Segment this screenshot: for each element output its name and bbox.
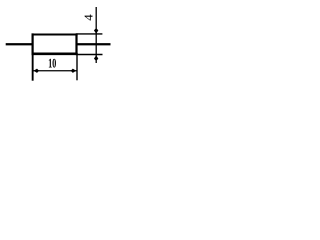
wire left lead xyxy=(6,43,34,45)
extension line bottom left (for dim 10) xyxy=(32,53,34,81)
resistor body right edge xyxy=(75,33,77,55)
extension line bottom right (for dim 4) xyxy=(76,54,102,56)
extension line bottom right vertical (for dim 10) xyxy=(76,53,78,80)
extension line top right (for dim 4) xyxy=(76,33,102,35)
label 4 (rotated 90 CCW) xyxy=(85,15,93,21)
label 10 digit 0 xyxy=(53,59,56,68)
arrowhead down (dim 4 top) xyxy=(94,29,98,34)
dimension line horizontal (dim 10) xyxy=(33,70,76,72)
arrowhead right (dim 10) xyxy=(71,69,76,73)
resistor body R1 top edge xyxy=(32,33,78,35)
label 10 digit 1 xyxy=(49,59,52,68)
arrowhead left (dim 10) xyxy=(34,69,39,73)
dimension line vertical (dim 4) xyxy=(95,7,97,63)
wire right lead xyxy=(76,43,111,45)
resistor body left edge xyxy=(31,33,33,55)
arrowhead up (dim 4 bottom) xyxy=(94,55,98,60)
resistor body bottom edge xyxy=(32,53,78,56)
